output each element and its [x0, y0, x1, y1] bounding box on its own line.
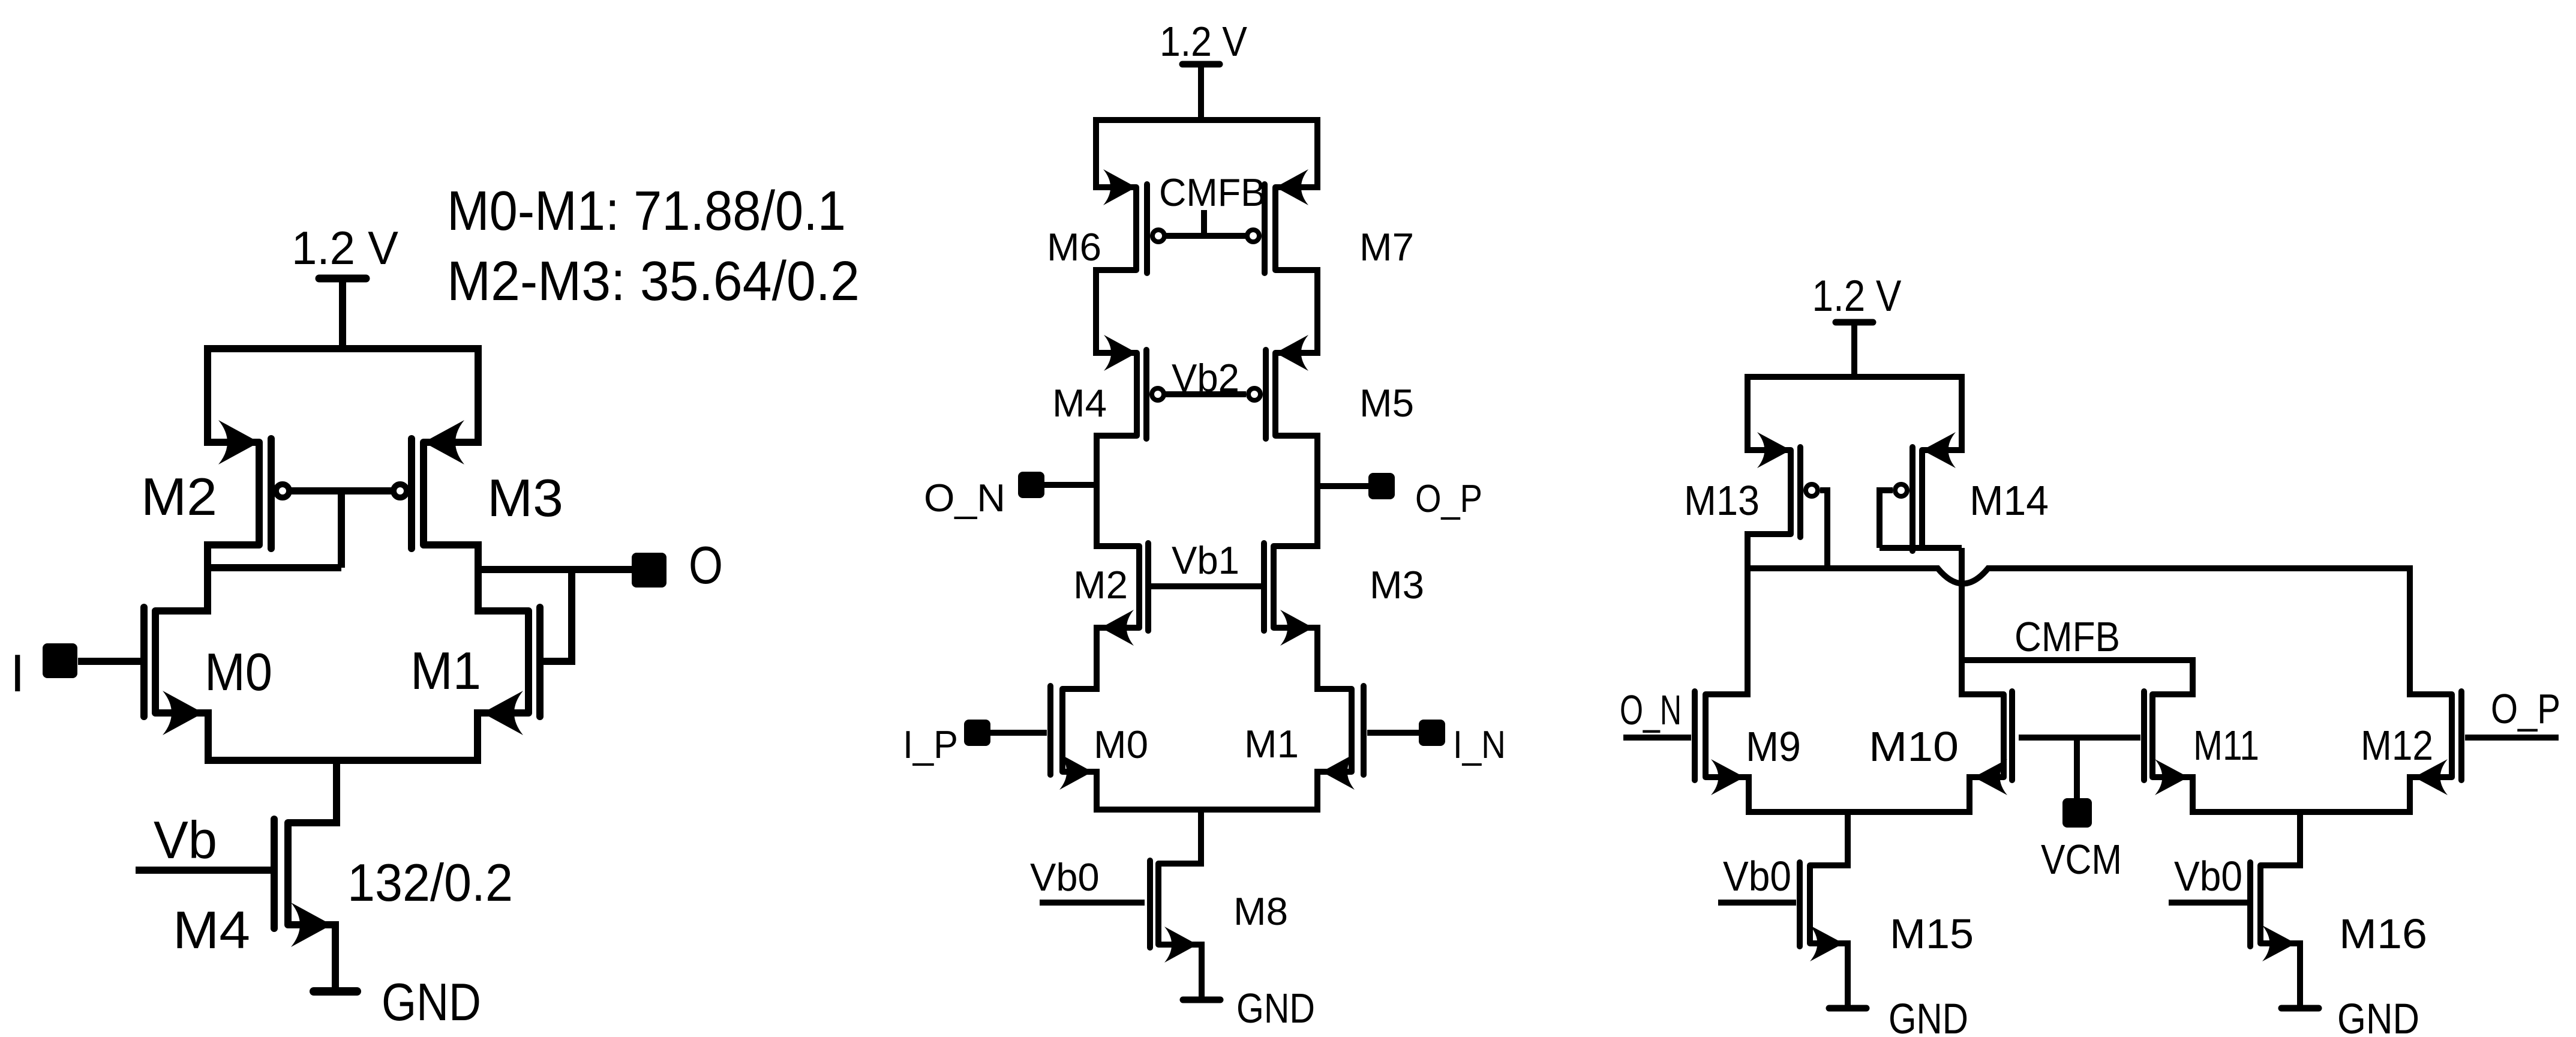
svg-text:Vb2: Vb2 — [1172, 356, 1239, 400]
wire tail node to M4 drain — [288, 760, 337, 823]
wire Vb to M4 gate — [136, 867, 271, 874]
transistor M4 (NMOS) — [173, 819, 332, 960]
transistor M8 (NMOS) — [1150, 861, 1288, 963]
svg-text:M6: M6 — [1047, 225, 1101, 269]
svg-text:M3: M3 — [487, 468, 563, 528]
pin O (output) — [632, 535, 723, 595]
wire M2 drain to M0 drain — [155, 545, 259, 611]
wire M14 gate tie — [1880, 490, 1893, 548]
transistor M15 (NMOS) — [1800, 862, 1974, 961]
svg-text:M11: M11 — [2193, 722, 2259, 769]
svg-text:M1: M1 — [1244, 722, 1299, 766]
transistor M12 (NMOS) — [2361, 691, 2461, 795]
svg-text:M0-M1: 71.88/0.1: M0-M1: 71.88/0.1 — [447, 179, 846, 242]
transistor M9 (NMOS) — [1695, 691, 1801, 795]
wire O_N to M9 gate — [1623, 735, 1691, 741]
wire Vb0 to M15 gate — [1718, 900, 1796, 906]
svg-text:M16: M16 — [2339, 910, 2427, 957]
power supply 1.2 V (right) — [1812, 272, 1902, 377]
svg-text:I_N: I_N — [1453, 723, 1506, 766]
pin I (input) — [10, 643, 77, 703]
svg-text:1.2 V: 1.2 V — [1812, 272, 1902, 320]
transistor M0 (NMOS) — [144, 607, 272, 735]
svg-text:O_P: O_P — [2491, 685, 2560, 732]
transistor M11 (NMOS) — [2144, 691, 2259, 795]
svg-text:O: O — [689, 535, 723, 595]
wire M4 drain to M2 drain — [1097, 436, 1139, 546]
svg-text:M12: M12 — [2361, 722, 2433, 769]
power supply 1.2 V (left) — [292, 221, 398, 349]
wire M10 gate to M11 gate — [2019, 735, 2140, 741]
wire VDD rail to M6/M7 sources — [1096, 120, 1317, 187]
transistor M14 (PMOS) — [1895, 432, 2049, 551]
svg-text:M2-M3: 35.64/0.2: M2-M3: 35.64/0.2 — [447, 250, 860, 312]
wire M15 source to ground — [1810, 943, 1848, 1008]
transistor M2 (NMOS) — [1073, 543, 1148, 646]
wire M0/M1 sources tail rail (middle) — [1062, 772, 1352, 810]
ground GND (M16) — [2281, 943, 2419, 1037]
transistor M4 (PMOS) — [1052, 335, 1164, 439]
svg-text:GND: GND — [1889, 996, 1968, 1037]
wire M3 drain to M1 drain — [424, 545, 529, 611]
transistor M1 (NMOS) — [1244, 686, 1364, 790]
svg-text:M10: M10 — [1869, 723, 1959, 770]
wire I_P to M0 gate — [990, 730, 1047, 736]
svg-text:M13: M13 — [1684, 477, 1760, 524]
wire M16 source to ground — [2260, 943, 2300, 1008]
wire M14 drain lead — [1880, 545, 1962, 551]
wire tail to M15 drain — [1810, 812, 1848, 865]
svg-text:O_N: O_N — [1620, 687, 1682, 733]
svg-text:M4: M4 — [173, 900, 250, 960]
wire M2/M3 gate drop — [338, 491, 345, 568]
wire Vb0 to M16 gate — [2169, 900, 2247, 906]
pin O_P (middle) — [1368, 473, 1482, 520]
power supply 1.2 V (middle) — [1160, 18, 1247, 120]
ground GND (left) — [314, 925, 481, 1032]
svg-text:VCM: VCM — [2041, 836, 2122, 883]
pin VCM — [2041, 798, 2122, 883]
svg-text:M0: M0 — [1094, 723, 1148, 766]
wire M5 drain to M3 drain — [1274, 436, 1317, 546]
svg-text:GND: GND — [382, 972, 481, 1032]
svg-text:O_N: O_N — [924, 476, 1005, 520]
wire M6 gate to M7 gate — [1166, 233, 1246, 239]
svg-text:CMFB: CMFB — [1159, 170, 1266, 214]
wire CMFB node to M11 drain — [1962, 660, 2193, 694]
transistor M10 (NMOS) — [1869, 691, 2012, 795]
pin O_N (middle) — [924, 472, 1044, 520]
ground GND (M15) — [1829, 943, 1968, 1037]
svg-text:GND: GND — [2337, 996, 2419, 1037]
wire output node O — [478, 566, 632, 573]
wire O_N tap — [1044, 482, 1097, 488]
transistor M6 (PMOS) — [1047, 169, 1164, 273]
wire M4 gate to M5 gate Vb2 — [1166, 391, 1246, 397]
wire M7 drain to M5 source — [1275, 270, 1317, 353]
wire output node with hop to M12 drain — [1748, 568, 2452, 694]
wire M2 source to M0 drain — [1062, 628, 1139, 689]
svg-text:I: I — [10, 643, 25, 703]
transistor M3 (NMOS) — [1264, 543, 1424, 646]
wire M9/M10 sources tail rail — [1706, 777, 2004, 812]
svg-text:1.2 V: 1.2 V — [292, 221, 398, 274]
svg-text:Vb1: Vb1 — [1172, 538, 1239, 582]
wire M11/M12 sources tail rail — [2152, 777, 2452, 812]
svg-text:M8: M8 — [1233, 889, 1288, 933]
svg-text:Vb: Vb — [154, 810, 217, 870]
svg-text:M5: M5 — [1359, 381, 1414, 425]
wire M14 drain down to CMFB node / M10 drain — [1962, 548, 2004, 694]
wire M4 source to ground — [288, 925, 335, 991]
svg-text:O_P: O_P — [1415, 476, 1482, 520]
wire tail to M8 drain — [1158, 810, 1201, 864]
svg-text:M7: M7 — [1359, 225, 1414, 269]
transistor M5 (PMOS) — [1248, 335, 1414, 439]
svg-text:Vb0: Vb0 — [1723, 853, 1791, 900]
svg-text:M2: M2 — [141, 467, 217, 526]
transistor M7 (PMOS) — [1247, 169, 1414, 273]
wire M13 drain / output node left / M9 drain — [1706, 534, 1791, 694]
svg-text:M4: M4 — [1052, 381, 1107, 425]
wire M6 drain to M4 source — [1096, 270, 1137, 353]
wire M3 source to M1 drain — [1274, 628, 1352, 689]
svg-text:1.2 V: 1.2 V — [1160, 18, 1247, 65]
svg-text:GND: GND — [1236, 985, 1315, 1032]
transistor M3 (PMOS) — [394, 420, 563, 549]
wire M2 gate to M3 gate — [292, 487, 391, 494]
wire M1 gate to output — [544, 570, 572, 661]
transistor M1 (NMOS) — [410, 607, 540, 735]
pin I_P — [903, 720, 990, 766]
svg-text:132/0.2: 132/0.2 — [347, 853, 513, 912]
transistor M16 (NMOS) — [2250, 862, 2427, 961]
wire tail to M16 drain — [2260, 812, 2300, 865]
wire M0/M1 sources tail rail — [155, 713, 529, 760]
wire VDD rail to M2/M3 sources (left) — [208, 349, 478, 442]
wire VCM stub — [2074, 738, 2080, 798]
wire M2 gate to M3 gate Vb1 — [1151, 583, 1262, 589]
wire Vb0 to M8 gate — [1040, 900, 1145, 906]
svg-text:Vb0: Vb0 — [1030, 855, 1100, 899]
svg-text:CMFB: CMFB — [2014, 613, 2120, 660]
svg-text:I_P: I_P — [903, 723, 958, 766]
svg-text:M0: M0 — [205, 642, 272, 702]
ground GND (middle) — [1183, 945, 1315, 1032]
svg-text:M1: M1 — [410, 641, 481, 700]
wire M13 gate tie — [1820, 490, 1827, 568]
svg-text:Vb0: Vb0 — [2174, 853, 2242, 900]
svg-text:M14: M14 — [1969, 477, 2049, 524]
transistor M2 (PMOS) — [141, 420, 289, 549]
wire M8 source to ground — [1158, 945, 1202, 1000]
wire gate tie to drain node — [208, 564, 341, 571]
svg-text:M2: M2 — [1073, 563, 1128, 607]
transistor M13 (PMOS) — [1684, 432, 1818, 537]
transistor M0 (NMOS) — [1050, 686, 1148, 790]
pin I_N — [1419, 720, 1506, 766]
svg-text:M9: M9 — [1746, 723, 1801, 770]
svg-text:M3: M3 — [1370, 563, 1424, 607]
wire VDD rail to M13/M14 sources — [1748, 377, 1962, 450]
wire O_P to M12 gate — [2465, 735, 2559, 741]
wire I_N to M1 gate — [1367, 730, 1419, 736]
wire CMFB stub to M6/M7 gates — [1201, 210, 1207, 236]
svg-text:M15: M15 — [1890, 910, 1974, 957]
wire input I to M0 gate — [78, 658, 140, 665]
wire O_P tap — [1317, 483, 1368, 489]
